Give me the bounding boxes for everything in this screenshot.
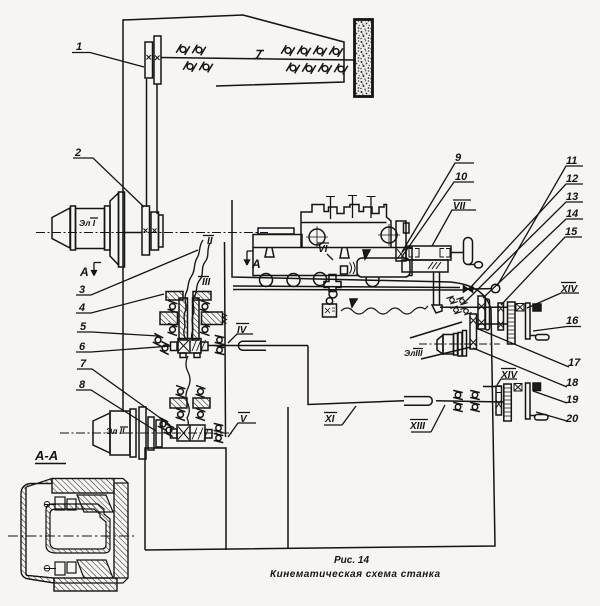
svg-text:17: 17 — [568, 357, 581, 369]
svg-text:8: 8 — [79, 379, 86, 391]
svg-text:А: А — [251, 257, 261, 271]
svg-text:Рис. 14: Рис. 14 — [334, 555, 369, 566]
svg-text:IV: IV — [237, 325, 248, 336]
svg-text:18: 18 — [566, 377, 579, 389]
svg-text:6: 6 — [79, 341, 86, 353]
svg-text:XI: XI — [324, 414, 335, 425]
svg-text:14: 14 — [566, 208, 578, 220]
svg-text:9: 9 — [455, 152, 462, 164]
svg-text:12: 12 — [566, 173, 578, 185]
svg-text:19: 19 — [566, 394, 579, 406]
svg-text:XIV: XIV — [560, 284, 578, 295]
svg-text:15: 15 — [565, 226, 578, 238]
svg-text:3: 3 — [79, 284, 85, 296]
svg-text:2: 2 — [74, 147, 81, 159]
svg-text:VII: VII — [453, 201, 465, 212]
svg-text:Кинематическая схема станка: Кинематическая схема станка — [270, 569, 440, 580]
svg-text:II: II — [207, 236, 213, 247]
svg-text:10: 10 — [455, 171, 468, 183]
svg-text:Эл II: Эл II — [106, 426, 125, 436]
svg-text:7: 7 — [80, 358, 87, 370]
svg-text:20: 20 — [565, 413, 579, 425]
svg-text:III: III — [202, 277, 211, 288]
svg-text:XIV: XIV — [500, 370, 518, 381]
svg-text:Эл I: Эл I — [79, 218, 96, 228]
svg-text:5: 5 — [80, 321, 87, 333]
svg-text:ЭлIII: ЭлIII — [404, 348, 423, 358]
svg-text:А: А — [79, 265, 89, 279]
svg-text:16: 16 — [566, 315, 579, 327]
svg-text:11: 11 — [566, 155, 577, 167]
svg-text:А-А: А-А — [34, 448, 58, 463]
svg-text:13: 13 — [566, 191, 578, 203]
svg-text:1: 1 — [76, 41, 82, 53]
svg-text:XIII: XIII — [409, 421, 425, 432]
svg-text:VI: VI — [318, 244, 328, 255]
svg-text:4: 4 — [78, 302, 85, 314]
